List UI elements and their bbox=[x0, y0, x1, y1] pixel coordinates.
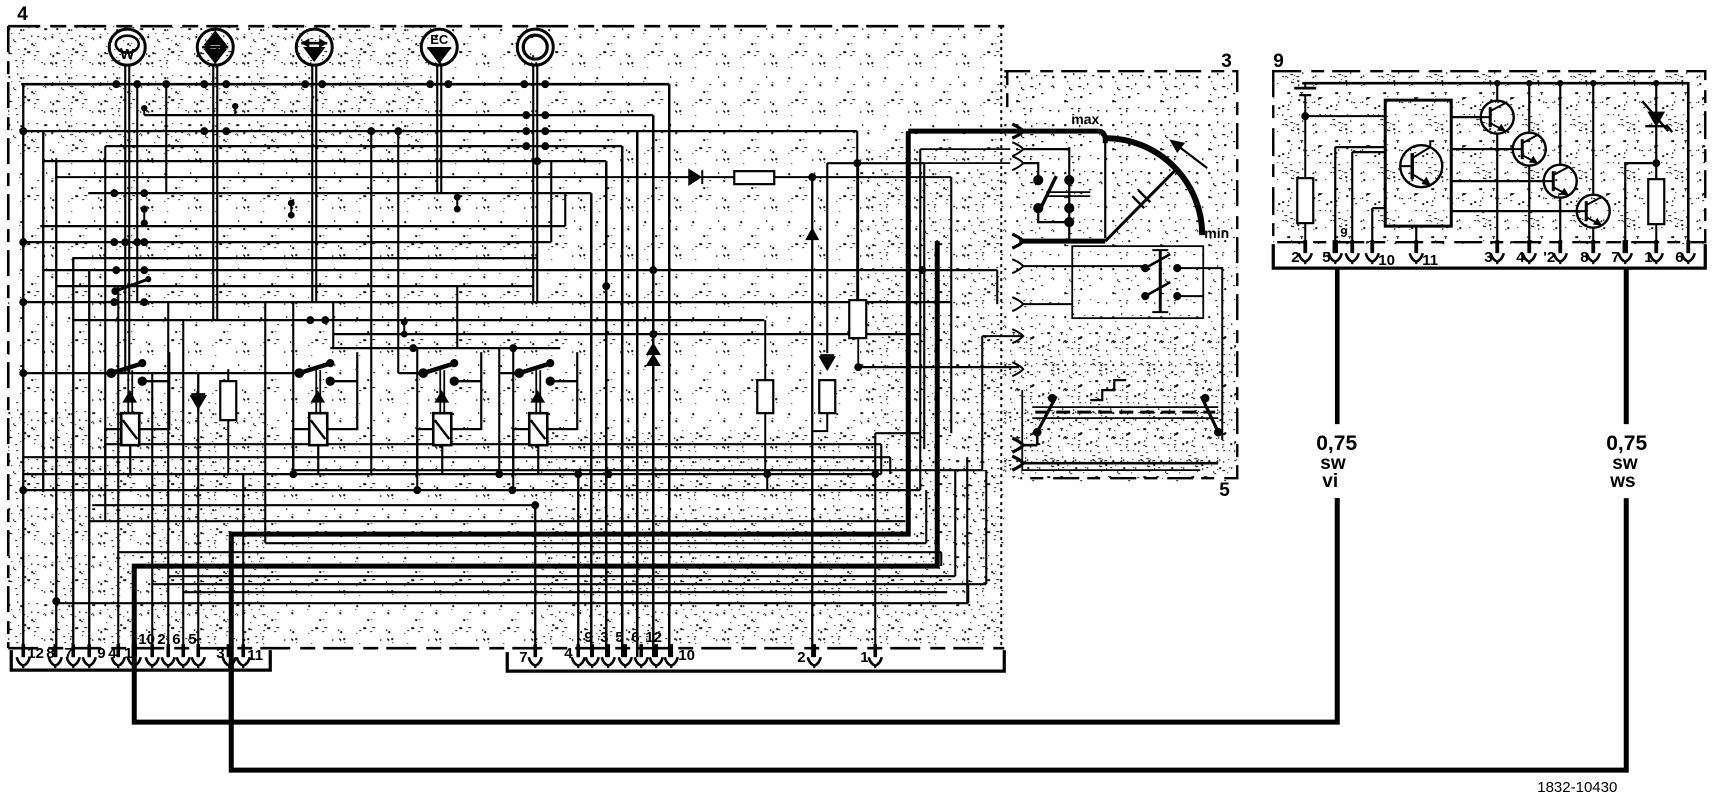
node bbox=[1590, 80, 1596, 86]
halftone patch bbox=[540, 430, 1004, 648]
connector arrow into block3 at y=445 bbox=[1012, 438, 1023, 452]
wire bbox=[265, 542, 926, 544]
wire bbox=[183, 591, 947, 593]
svg-text:4: 4 bbox=[17, 4, 28, 25]
wire bbox=[105, 145, 622, 147]
wire bbox=[292, 302, 294, 476]
zener diode D6 bbox=[1642, 83, 1672, 179]
wire bbox=[23, 372, 300, 374]
resistor R6 bbox=[1297, 178, 1313, 223]
svg-text:0,75: 0,75 bbox=[1606, 432, 1647, 455]
wire bbox=[72, 257, 537, 259]
node bbox=[1652, 159, 1660, 167]
svg-text:12: 12 bbox=[27, 645, 44, 662]
wire bbox=[212, 64, 214, 320]
node bbox=[509, 344, 517, 352]
pin 5 center connector bbox=[623, 644, 627, 657]
wire bbox=[923, 163, 925, 449]
node bbox=[604, 470, 612, 478]
pin 5 block9 bbox=[1333, 240, 1338, 253]
wire bbox=[858, 366, 1019, 368]
wire bbox=[23, 489, 920, 491]
switch S4 bbox=[1033, 394, 1056, 445]
pin 4 center connector bbox=[576, 644, 580, 657]
wire bbox=[1022, 303, 1072, 305]
wire bbox=[954, 470, 956, 576]
wire bbox=[605, 161, 608, 657]
pin 1372 block9 bbox=[1370, 240, 1374, 253]
node bbox=[133, 238, 141, 246]
pin 6 block9 bbox=[1686, 240, 1690, 253]
wire elbow bbox=[920, 148, 1010, 150]
svg-text:10: 10 bbox=[1378, 252, 1395, 269]
node bbox=[1526, 80, 1532, 86]
contact stub bbox=[401, 319, 408, 326]
wire bbox=[1022, 444, 1037, 447]
pin 7 block9 bbox=[1623, 240, 1628, 253]
switch S5 bbox=[1201, 394, 1222, 436]
wire bbox=[826, 163, 828, 353]
wire bbox=[498, 348, 500, 474]
node bbox=[444, 80, 452, 88]
node bbox=[394, 127, 402, 135]
diode D3 arrow bbox=[805, 227, 819, 240]
block 4 dotted border right bbox=[1000, 26, 1002, 648]
diode D1 bbox=[191, 373, 205, 412]
transistor Q3 bbox=[1513, 133, 1546, 166]
wire bbox=[534, 505, 536, 657]
wire bbox=[21, 83, 669, 86]
wire bbox=[23, 301, 951, 303]
block 3 background halftone bbox=[1004, 71, 1237, 481]
node bbox=[301, 80, 309, 88]
rheostat wiper bbox=[1105, 168, 1177, 241]
wire bbox=[23, 473, 881, 475]
svg-text:4: 4 bbox=[108, 645, 117, 662]
wire base Q4 bbox=[1451, 180, 1544, 182]
node bbox=[409, 344, 417, 352]
wire bbox=[436, 64, 438, 193]
wire bbox=[1022, 462, 1218, 465]
wire bbox=[88, 192, 591, 194]
wire bbox=[889, 457, 891, 474]
svg-text:1: 1 bbox=[1644, 249, 1652, 266]
node bbox=[222, 80, 230, 88]
switch S3 bbox=[1142, 250, 1204, 312]
node bbox=[763, 470, 771, 478]
pin 10 center connector bbox=[669, 644, 673, 657]
halftone patch bbox=[8, 26, 428, 146]
wire bbox=[985, 470, 987, 584]
wire bbox=[242, 474, 244, 657]
wire bbox=[311, 64, 313, 302]
thick wire segment bbox=[908, 129, 1019, 134]
svg-text:9: 9 bbox=[97, 645, 105, 662]
wire bbox=[397, 131, 399, 373]
svg-text:2: 2 bbox=[157, 631, 165, 648]
wire bbox=[827, 162, 924, 164]
wire collector Q5 bbox=[1592, 83, 1594, 195]
node bbox=[112, 266, 120, 274]
pin 12 left connector bbox=[21, 644, 25, 657]
node bbox=[541, 111, 549, 119]
wire bbox=[1305, 115, 1385, 117]
wire bbox=[875, 432, 920, 434]
battery symbol bbox=[1304, 83, 1306, 87]
block 4 dashed border left bbox=[7, 26, 10, 648]
node bbox=[222, 127, 230, 135]
relay K4 with switch bbox=[513, 352, 577, 474]
wire bbox=[182, 320, 184, 657]
svg-text:2: 2 bbox=[797, 649, 805, 666]
node bbox=[522, 111, 530, 119]
wire bbox=[197, 373, 199, 657]
contact stub bbox=[141, 206, 148, 213]
node bbox=[367, 127, 375, 135]
wire bbox=[550, 161, 552, 242]
svg-text:4: 4 bbox=[1516, 249, 1525, 266]
wire base Q3 bbox=[1451, 148, 1513, 150]
wire bbox=[940, 552, 942, 566]
wire gauge1 stem bbox=[124, 64, 126, 84]
transistor Q2 bbox=[1481, 101, 1514, 134]
pin '2 block9 bbox=[1558, 240, 1562, 253]
node bbox=[19, 238, 27, 246]
wire bbox=[919, 149, 921, 490]
wire bbox=[42, 131, 44, 492]
wire bbox=[333, 333, 920, 335]
wire bbox=[966, 457, 968, 603]
svg-text:ws: ws bbox=[1609, 471, 1635, 492]
wire bbox=[1104, 142, 1106, 238]
wire lever stub K3 bbox=[398, 372, 423, 374]
node bbox=[918, 266, 926, 274]
node bbox=[508, 486, 516, 494]
svg-text:max: max bbox=[1071, 111, 1099, 127]
wire bbox=[1203, 268, 1222, 440]
bus wire block9 bbox=[1302, 83, 1688, 242]
wire bbox=[1022, 265, 1148, 267]
connector arrow into block3 at y=131 bbox=[1012, 124, 1023, 138]
wire bbox=[293, 469, 982, 471]
svg-text:2: 2 bbox=[1291, 249, 1299, 266]
wire bbox=[880, 444, 882, 474]
svg-text:5: 5 bbox=[1219, 480, 1230, 501]
wire bbox=[89, 520, 905, 522]
wire gauge2 stem bbox=[212, 64, 214, 84]
svg-text:9: 9 bbox=[584, 629, 592, 646]
svg-text:EC: EC bbox=[430, 32, 449, 47]
node bbox=[133, 80, 141, 88]
svg-text:3: 3 bbox=[600, 629, 608, 646]
wire bbox=[652, 115, 655, 657]
svg-text:4: 4 bbox=[564, 645, 573, 662]
thick wire riser to pin5 of block9 bbox=[1335, 268, 1340, 424]
halftone patch bbox=[1004, 71, 1237, 191]
wire bbox=[532, 64, 534, 302]
wire bbox=[668, 84, 671, 657]
gauge symbol G5 (clock) bbox=[517, 29, 553, 65]
pin 3 block9 bbox=[1495, 240, 1499, 253]
IC box U1 bbox=[1385, 100, 1451, 226]
transistor Q5 bbox=[1577, 195, 1610, 228]
node bbox=[306, 316, 314, 324]
wire bbox=[23, 241, 551, 243]
wire bbox=[332, 302, 334, 348]
svg-text:11: 11 bbox=[1422, 252, 1438, 269]
block 4 background halftone bbox=[8, 26, 1004, 650]
resistor R4 bbox=[849, 300, 866, 338]
node bbox=[52, 597, 60, 605]
wire bbox=[456, 286, 458, 348]
wire bbox=[92, 504, 535, 506]
wire bbox=[72, 319, 764, 321]
pin 1 center connector bbox=[873, 644, 877, 657]
wire gauge3 stem bbox=[311, 64, 313, 84]
transistor Q4 bbox=[1544, 165, 1577, 198]
pin 3 center connector bbox=[606, 644, 610, 657]
gauge symbol G2 (temp) bbox=[197, 29, 233, 65]
relay K1 with switch bbox=[105, 352, 169, 474]
svg-text:9: 9 bbox=[1273, 51, 1284, 72]
svg-text:10: 10 bbox=[138, 631, 155, 648]
pin 2 center connector bbox=[812, 644, 816, 657]
pin 9 left connector bbox=[87, 644, 91, 657]
halftone patch bbox=[860, 150, 1004, 550]
svg-text:7: 7 bbox=[519, 649, 527, 666]
node bbox=[495, 470, 503, 478]
pin 7 left connector bbox=[71, 644, 75, 657]
connector bracket left bbox=[11, 650, 270, 670]
block 3 dashed border bbox=[1004, 71, 1237, 478]
wire bbox=[23, 456, 890, 458]
wire bbox=[168, 575, 955, 577]
node bbox=[602, 282, 610, 290]
wire bbox=[106, 443, 881, 445]
svg-text:7: 7 bbox=[1611, 249, 1619, 266]
svg-text:1: 1 bbox=[124, 645, 132, 662]
svg-text:11: 11 bbox=[247, 647, 263, 664]
wire bbox=[536, 64, 538, 302]
node bbox=[541, 142, 549, 150]
node bbox=[522, 142, 530, 150]
transistor Q1 (power) bbox=[1400, 140, 1442, 187]
pin 5 left connector bbox=[196, 644, 200, 657]
svg-text:8: 8 bbox=[46, 645, 54, 662]
wire bbox=[56, 285, 533, 287]
thick wire path B (min circuit) bbox=[1019, 239, 1105, 244]
node bbox=[649, 266, 657, 274]
svg-text:6: 6 bbox=[631, 629, 639, 646]
connector bracket center bbox=[507, 650, 1004, 671]
svg-text:1832-10430: 1832-10430 bbox=[1537, 779, 1617, 796]
node bbox=[871, 470, 879, 478]
connector arrow into block3 at y=163 bbox=[1012, 156, 1023, 170]
wire bbox=[950, 177, 952, 433]
node bbox=[19, 127, 27, 135]
node bbox=[426, 80, 434, 88]
connector arrow into block3 at y=304 bbox=[1012, 297, 1023, 311]
wire bbox=[330, 347, 560, 349]
wire bbox=[1625, 163, 1656, 242]
wire bbox=[165, 84, 167, 193]
connector arrow into block3 at y=241 bbox=[1012, 234, 1023, 248]
node bbox=[853, 159, 861, 167]
wire bbox=[1022, 163, 1038, 176]
double diode D2 bbox=[647, 344, 659, 365]
pin 1 left connector bbox=[132, 644, 137, 657]
wire collector Q3 bbox=[1528, 83, 1530, 133]
wire bbox=[621, 146, 624, 657]
node bbox=[110, 189, 118, 197]
wire bbox=[996, 270, 998, 304]
wire bbox=[1351, 152, 1353, 242]
node bbox=[112, 80, 120, 88]
connector arrow into block3 at y=369 bbox=[1012, 362, 1023, 376]
wire bbox=[636, 131, 639, 657]
svg-text:7: 7 bbox=[64, 645, 72, 662]
connector arrow into block3 at y=266 bbox=[1012, 259, 1023, 273]
svg-text:5: 5 bbox=[1322, 249, 1330, 266]
pin 6 left connector bbox=[181, 644, 185, 657]
relay K2 with switch bbox=[293, 352, 357, 474]
node bbox=[808, 173, 816, 181]
wire base Q2 bbox=[1451, 116, 1481, 118]
wire bbox=[22, 84, 24, 657]
svg-text:min: min bbox=[1204, 225, 1229, 241]
svg-text:10: 10 bbox=[678, 647, 695, 664]
node bbox=[200, 127, 208, 135]
wire bbox=[440, 64, 442, 193]
halftone patch bbox=[1004, 330, 1237, 478]
svg-text:W: W bbox=[120, 46, 135, 63]
gauge symbol G1 (washer) bbox=[109, 29, 145, 65]
node bbox=[19, 298, 27, 306]
node bbox=[522, 127, 530, 135]
resistor R2 bbox=[757, 380, 773, 413]
wire bbox=[104, 146, 106, 521]
diode D5 with resistor R5 bbox=[55, 170, 734, 184]
node bbox=[1494, 80, 1500, 86]
wire bbox=[56, 602, 968, 604]
node bbox=[140, 189, 148, 197]
pin 10 left connector bbox=[150, 644, 154, 657]
wire bbox=[811, 177, 813, 657]
wire bbox=[512, 348, 514, 490]
node bbox=[140, 298, 148, 306]
gauge symbol G4 (EC) bbox=[421, 29, 457, 65]
svg-text:vi: vi bbox=[1322, 471, 1338, 492]
wire bbox=[416, 348, 418, 490]
wire bbox=[925, 490, 927, 543]
svg-text:6: 6 bbox=[1675, 249, 1683, 266]
node bbox=[140, 238, 148, 246]
node bbox=[574, 470, 582, 478]
wire bbox=[590, 193, 593, 657]
svg-text:1: 1 bbox=[860, 649, 868, 666]
node bbox=[649, 330, 657, 338]
wire bbox=[40, 225, 565, 227]
block 9 connector bracket bbox=[1273, 244, 1705, 268]
wire bbox=[1022, 148, 1069, 150]
wire bbox=[43, 269, 997, 271]
wire bbox=[152, 583, 986, 585]
wire bbox=[136, 84, 138, 302]
pin 3 left connector bbox=[227, 644, 232, 657]
switch box outline bbox=[1022, 390, 1200, 470]
wire base Q5 bbox=[1451, 210, 1577, 212]
wire bbox=[370, 131, 372, 474]
wire bbox=[856, 131, 858, 300]
wire bbox=[981, 336, 983, 470]
wire bbox=[1371, 208, 1373, 242]
wire collector Q2 bbox=[1496, 83, 1498, 101]
pin 4 left connector bbox=[116, 644, 120, 657]
node bbox=[520, 80, 528, 88]
wire bbox=[23, 130, 857, 132]
block 9 background halftone bbox=[1273, 71, 1705, 244]
halftone patch bbox=[8, 400, 268, 648]
node bbox=[321, 316, 329, 324]
wire bbox=[117, 286, 119, 657]
wire bbox=[564, 193, 566, 226]
pin 6 center connector bbox=[639, 644, 643, 657]
node bbox=[531, 501, 539, 509]
wire bbox=[124, 64, 126, 373]
connector arrow into block3 at y=149 bbox=[1012, 142, 1023, 156]
pin 8 block9 bbox=[1591, 240, 1595, 253]
node bbox=[200, 80, 208, 88]
switch S2 bbox=[1034, 147, 1091, 241]
svg-text:8: 8 bbox=[1580, 249, 1588, 266]
svg-text:3: 3 bbox=[1484, 249, 1492, 266]
svg-text:0,75: 0,75 bbox=[1316, 432, 1357, 455]
wire bbox=[143, 110, 145, 115]
node bbox=[140, 266, 148, 274]
connector arrow into block3 at y=463 bbox=[1012, 456, 1023, 470]
contact stub bbox=[288, 200, 295, 207]
wire gauge5 stem bbox=[532, 64, 534, 84]
svg-text:3: 3 bbox=[216, 645, 224, 662]
pin 11 left connector bbox=[241, 644, 245, 657]
wire bbox=[55, 161, 57, 657]
wire bbox=[982, 335, 1022, 337]
wire bbox=[43, 160, 606, 162]
mechanical link dashed bbox=[1035, 411, 1215, 414]
resistor R1 bbox=[220, 381, 236, 420]
wire bbox=[88, 270, 90, 657]
wire bbox=[128, 64, 130, 373]
pin 7 center connector bbox=[533, 644, 537, 657]
pin 1416 block9 bbox=[1414, 240, 1418, 253]
node bbox=[541, 127, 549, 135]
resistor R3 bbox=[819, 380, 835, 413]
pin 1 block9 bbox=[1654, 240, 1658, 253]
wire lever stub K4 bbox=[499, 372, 519, 374]
svg-text:12: 12 bbox=[645, 629, 662, 646]
step symbol bbox=[1090, 380, 1126, 400]
wire bbox=[874, 433, 876, 657]
svg-text:3: 3 bbox=[1221, 51, 1232, 72]
node bbox=[110, 298, 118, 306]
wire bbox=[151, 373, 153, 657]
pin 8 left connector bbox=[53, 644, 57, 657]
svg-text:'2: '2 bbox=[1543, 249, 1555, 266]
wire bbox=[577, 474, 579, 657]
node bbox=[289, 470, 297, 478]
relay K3 with switch bbox=[417, 352, 481, 474]
wire bbox=[234, 108, 236, 115]
